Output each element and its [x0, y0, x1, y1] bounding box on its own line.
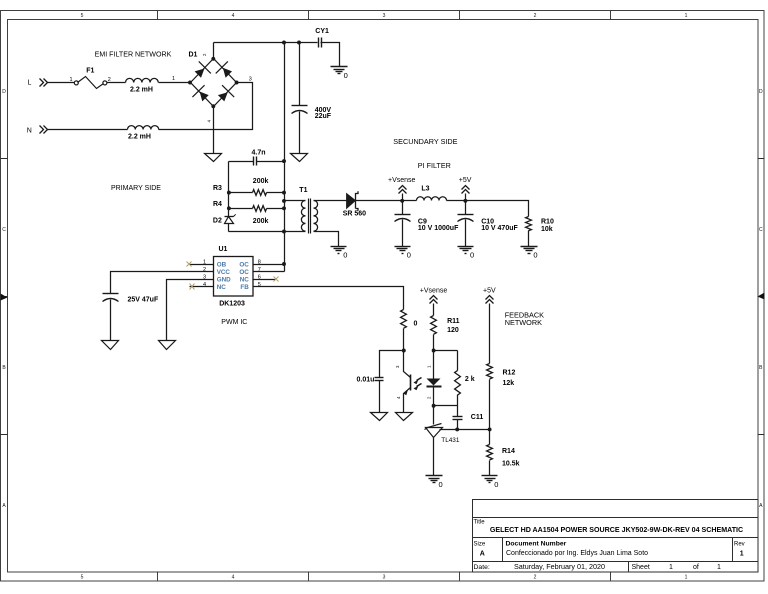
ground U1 GND	[159, 341, 176, 350]
svg-text:Confeccionado por Ing. Eldys J: Confeccionado por Ing. Eldys Juan Lima S…	[506, 550, 648, 557]
svg-text:SR 560: SR 560	[343, 210, 366, 217]
power net symbol +Vsense	[399, 186, 407, 194]
wire snubber left vertical	[228, 162, 230, 209]
svg-text:R12: R12	[503, 370, 516, 377]
wire N port to L2	[48, 129, 128, 131]
wire L port to fuse	[48, 82, 75, 84]
svg-text:0: 0	[533, 251, 537, 260]
svg-text:OC: OC	[239, 269, 249, 276]
ground C9	[395, 247, 411, 254]
svg-text:1: 1	[70, 77, 73, 83]
svg-text:10 V 470uF: 10 V 470uF	[481, 225, 518, 232]
svg-text:L: L	[28, 79, 32, 86]
wire CY1 to ground	[321, 43, 340, 67]
svg-text:1: 1	[717, 564, 721, 571]
svg-text:C11: C11	[471, 414, 484, 421]
svg-text:4: 4	[232, 574, 235, 580]
diode SR 560	[343, 191, 366, 217]
svg-text:SECUNDARY SIDE: SECUNDARY SIDE	[393, 137, 457, 146]
svg-text:EMI FILTER NETWORK: EMI FILTER NETWORK	[95, 50, 172, 58]
svg-text:3: 3	[249, 76, 252, 82]
svg-text:L3: L3	[421, 186, 429, 193]
svg-text:NC: NC	[240, 276, 250, 283]
svg-text:Sheet: Sheet	[632, 564, 650, 571]
svg-text:PRIMARY SIDE: PRIMARY SIDE	[111, 185, 161, 192]
svg-text:D: D	[2, 89, 6, 95]
svg-text:+5V: +5V	[459, 177, 472, 184]
capacitor C10 10V 470uF	[458, 215, 474, 222]
svg-text:GND: GND	[217, 276, 231, 283]
svg-text:R10: R10	[541, 218, 554, 225]
svg-text:5: 5	[81, 574, 84, 580]
ground C10	[458, 247, 474, 254]
svg-text:Rev: Rev	[734, 541, 745, 547]
junction 4.7n right	[282, 159, 286, 163]
svg-text:U1: U1	[219, 246, 228, 253]
no-connect pin 1	[187, 262, 192, 267]
svg-text:GELECT HD AA1504 POWER SOURCE: GELECT HD AA1504 POWER SOURCE JKY502-9W-…	[490, 526, 743, 534]
power net symbol +5V	[462, 186, 470, 194]
svg-text:3: 3	[383, 574, 386, 580]
ground bridge	[205, 154, 222, 162]
svg-text:10 V 1000uF: 10 V 1000uF	[418, 225, 459, 232]
svg-text:T1: T1	[299, 187, 307, 194]
no-connect pin 4	[190, 284, 195, 290]
svg-text:R4: R4	[213, 201, 222, 208]
svg-text:1: 1	[685, 13, 688, 19]
capacitor bulk 400V 22uF	[292, 106, 308, 114]
wire LED cathode to 2k bottom	[434, 405, 458, 407]
svg-text:+Vsense: +Vsense	[420, 287, 448, 294]
wire pin 8 to primary vertical	[276, 264, 285, 266]
svg-text:OC: OC	[239, 261, 249, 268]
wire primary vertical	[284, 43, 286, 272]
svg-text:R3: R3	[213, 185, 222, 192]
svg-text:of: of	[693, 564, 699, 571]
svg-text:25V 47uF: 25V 47uF	[128, 297, 159, 304]
wire L2 to bridge pin 3	[159, 83, 253, 130]
svg-text:2: 2	[534, 574, 537, 580]
svg-text:12k: 12k	[503, 380, 515, 387]
svg-text:NC: NC	[217, 284, 227, 291]
svg-text:C: C	[2, 227, 6, 233]
ground opto emitter	[396, 413, 413, 421]
power net symbol +Vsense fb	[430, 296, 438, 304]
power net symbol +5V fb	[486, 296, 494, 304]
transformer T1	[299, 187, 317, 234]
no-connect pin 6	[274, 277, 279, 282]
ground R10	[521, 247, 538, 254]
svg-text:PI FILTER: PI FILTER	[418, 161, 451, 170]
wire bridge bottom to ground	[213, 107, 215, 154]
node R11 / LED / 2k	[432, 349, 436, 353]
svg-text:0.01u: 0.01u	[357, 377, 375, 384]
optocoupler phototransistor	[395, 351, 411, 413]
svg-text:Date:: Date:	[474, 564, 490, 571]
junction rail/primary vertical	[282, 41, 286, 45]
wire T1 secondary bottom to ground	[314, 232, 339, 247]
svg-text:Document Number: Document Number	[506, 540, 567, 547]
svg-text:0: 0	[414, 320, 418, 327]
svg-text:22uF: 22uF	[315, 113, 332, 120]
svg-text:Size: Size	[474, 541, 486, 547]
svg-text:D: D	[759, 89, 763, 95]
svg-text:+5V: +5V	[483, 287, 496, 294]
wire +5V to R10	[466, 201, 529, 217]
wire diode to +Vsense node	[356, 200, 403, 202]
capacitor C9 10V 1000uF	[395, 215, 411, 222]
svg-text:0: 0	[407, 251, 411, 260]
wire fuse to L1	[107, 82, 126, 84]
svg-text:3: 3	[383, 13, 386, 19]
ground T1 secondary	[331, 247, 347, 254]
svg-text:D1: D1	[189, 52, 198, 59]
svg-text:OB: OB	[217, 261, 227, 268]
shunt regulator TL431	[425, 406, 460, 476]
wire bridge top to rail	[213, 43, 215, 59]
svg-text:4.7n: 4.7n	[252, 149, 266, 156]
op-amp U1 DK1203 PWM IC	[190, 246, 276, 326]
svg-text:2: 2	[534, 13, 537, 19]
svg-text:CY1: CY1	[315, 28, 329, 35]
svg-text:1: 1	[669, 564, 673, 571]
ground bulk cap	[291, 154, 308, 162]
svg-text:10k: 10k	[541, 226, 553, 233]
wire TL431 ref to divider	[440, 429, 490, 431]
svg-text:1: 1	[172, 76, 175, 82]
svg-text:0: 0	[439, 480, 443, 489]
ground CY1	[331, 67, 348, 74]
svg-text:TL431: TL431	[441, 437, 460, 444]
svg-text:NETWORK: NETWORK	[505, 318, 542, 327]
svg-text:D2: D2	[213, 218, 222, 225]
junction rail/C bulk	[297, 41, 301, 45]
svg-text:FB: FB	[240, 284, 249, 291]
svg-text:PWM IC: PWM IC	[221, 319, 247, 326]
title block	[473, 500, 759, 573]
svg-text:2.2 mH: 2.2 mH	[130, 87, 153, 94]
svg-text:Title: Title	[474, 520, 486, 526]
wire bulk cap to ground	[299, 112, 301, 154]
capacitor C9	[402, 201, 404, 215]
svg-text:2.2 mH: 2.2 mH	[128, 133, 151, 140]
svg-text:1: 1	[685, 574, 688, 580]
wire pin 3 GND to ground	[167, 280, 214, 341]
svg-text:A: A	[480, 550, 485, 557]
ground TL431	[426, 476, 443, 483]
ground R14	[482, 476, 498, 483]
svg-text:R14: R14	[502, 448, 515, 455]
wire snubber bottom	[229, 231, 306, 233]
capacitor C10	[465, 201, 467, 215]
capacitor Cvcc 25V 47uF	[103, 294, 119, 302]
diode bridge D1	[188, 52, 252, 123]
svg-text:4: 4	[232, 13, 235, 19]
wire top rail	[214, 42, 318, 44]
ground C 0.01u	[371, 413, 388, 421]
node R12/R14/ref	[488, 427, 492, 431]
svg-text:C: C	[759, 227, 763, 233]
wire T1 primary top branch	[285, 200, 306, 202]
svg-text:VCC: VCC	[217, 269, 231, 276]
inductor L line 2.2 mH	[126, 78, 159, 82]
svg-text:R11: R11	[447, 318, 460, 325]
svg-text:Saturday, February 01, 2020: Saturday, February 01, 2020	[514, 562, 605, 571]
svg-text:0: 0	[343, 251, 347, 260]
optocoupler light arrows	[417, 378, 422, 387]
svg-text:10.5k: 10.5k	[502, 461, 520, 468]
ground Cvcc	[102, 341, 119, 350]
inductor N line 2.2 mH	[128, 126, 159, 130]
svg-text:1: 1	[740, 550, 744, 557]
svg-text:120: 120	[447, 327, 459, 334]
wire node to C 0.01u	[380, 351, 404, 378]
svg-text:0: 0	[470, 251, 474, 260]
svg-text:N: N	[27, 128, 32, 135]
svg-text:0: 0	[344, 71, 348, 80]
optocoupler LED	[426, 351, 441, 406]
svg-text:+Vsense: +Vsense	[388, 177, 416, 184]
wire pin 7 to primary vertical	[253, 271, 285, 273]
svg-text:DK1203: DK1203	[219, 300, 245, 307]
wire T1 secondary top to diode	[314, 200, 347, 202]
wire pin 5 FB to R zero	[253, 287, 404, 310]
svg-text:F1: F1	[86, 67, 94, 74]
wire rail to bulk cap	[299, 43, 301, 106]
svg-text:5: 5	[81, 13, 84, 19]
svg-text:200k: 200k	[253, 218, 269, 225]
svg-text:0: 0	[494, 480, 498, 489]
wire pin 2 VCC to C vcc	[111, 272, 214, 294]
node FB / opto collector	[402, 349, 406, 353]
svg-text:200k: 200k	[253, 178, 269, 185]
svg-text:2 k: 2 k	[465, 376, 475, 383]
